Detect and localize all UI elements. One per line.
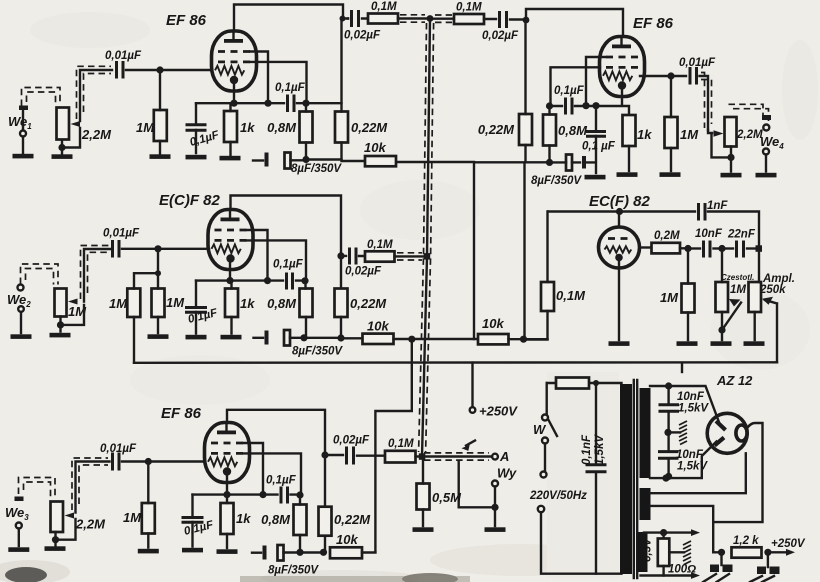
svg-text:22nF: 22nF (727, 229, 756, 241)
svg-text:0,02µF: 0,02µF (333, 435, 370, 447)
svg-text:0,22M: 0,22M (350, 296, 387, 311)
svg-text:1M: 1M (730, 284, 746, 296)
svg-text:10nF: 10nF (695, 228, 723, 240)
svg-text:0,22M: 0,22M (334, 512, 371, 527)
svg-text:0,22M: 0,22M (478, 122, 515, 137)
svg-text:10nF: 10nF (677, 391, 705, 403)
svg-text:Wy: Wy (497, 466, 517, 481)
svg-text:+250V: +250V (771, 538, 806, 550)
svg-text:W: W (533, 422, 547, 437)
svg-text:0,02µF: 0,02µF (345, 266, 382, 278)
svg-text:0,2M: 0,2M (654, 230, 680, 242)
svg-text:1k: 1k (637, 127, 652, 142)
svg-text:10nF: 10nF (676, 449, 704, 461)
svg-text:1k: 1k (240, 120, 255, 135)
svg-text:250k: 250k (759, 284, 786, 296)
svg-text:EC(F) 82: EC(F) 82 (589, 193, 651, 210)
svg-text:0,1M: 0,1M (388, 438, 414, 450)
svg-text:1k: 1k (236, 511, 251, 526)
svg-text:10k: 10k (336, 532, 358, 547)
svg-text:1,2 k: 1,2 k (733, 535, 759, 547)
svg-text:1M: 1M (660, 290, 679, 305)
svg-text:0,5M: 0,5M (432, 490, 462, 505)
svg-text:EF 86: EF 86 (166, 12, 207, 29)
svg-text:0,8M: 0,8M (261, 512, 291, 527)
svg-text:1M: 1M (166, 295, 185, 310)
svg-text:EF 86: EF 86 (161, 405, 202, 422)
svg-text:8µF/350V: 8µF/350V (291, 163, 342, 175)
svg-text:1k: 1k (240, 296, 255, 311)
svg-text:8µF/350V: 8µF/350V (268, 565, 319, 577)
svg-text:0,1µF: 0,1µF (273, 259, 304, 271)
svg-text:2,2M: 2,2M (81, 127, 112, 142)
svg-text:+250V: +250V (479, 404, 518, 419)
svg-text:1M: 1M (123, 510, 142, 525)
svg-text:8µF/350V: 8µF/350V (531, 175, 582, 187)
svg-text:1,5kV: 1,5kV (678, 403, 709, 415)
svg-text:EF 86: EF 86 (633, 15, 674, 32)
svg-text:Czestotl.: Czestotl. (721, 273, 754, 282)
svg-text:0,8M: 0,8M (267, 120, 297, 135)
svg-text:0,22M: 0,22M (351, 120, 388, 135)
svg-text:0,1M: 0,1M (371, 1, 397, 13)
svg-text:0,8M: 0,8M (558, 123, 588, 138)
svg-text:0,1nF: 0,1nF (581, 434, 593, 465)
svg-text:0,1 µF: 0,1 µF (582, 141, 616, 153)
svg-text:A: A (499, 449, 509, 464)
svg-text:1,5kV: 1,5kV (677, 461, 708, 473)
svg-text:0,01µF: 0,01µF (105, 50, 142, 62)
svg-text:220V/50Hz: 220V/50Hz (529, 490, 587, 502)
svg-text:E(C)F 82: E(C)F 82 (159, 192, 221, 209)
svg-text:0,1M: 0,1M (456, 2, 482, 14)
svg-text:1M: 1M (109, 296, 128, 311)
svg-text:2,2M: 2,2M (75, 517, 106, 532)
svg-text:0,1µF: 0,1µF (554, 85, 585, 97)
svg-text:10k: 10k (482, 316, 504, 331)
svg-text:0,02µF: 0,02µF (482, 30, 519, 42)
svg-text:1nF: 1nF (707, 200, 728, 212)
svg-text:10k: 10k (364, 140, 386, 155)
svg-text:0,1µF: 0,1µF (266, 475, 297, 487)
svg-text:1,5kV: 1,5kV (594, 434, 606, 465)
svg-text:1M: 1M (680, 127, 699, 142)
svg-text:1M: 1M (136, 120, 155, 135)
svg-text:0,1µF: 0,1µF (275, 82, 306, 94)
svg-text:10k: 10k (367, 319, 389, 334)
svg-text:0,1M: 0,1M (367, 239, 393, 251)
svg-text:6,3V: 6,3V (642, 537, 654, 562)
svg-text:0,01µF: 0,01µF (103, 228, 140, 240)
svg-text:0,02µF: 0,02µF (344, 30, 381, 42)
svg-text:0,8M: 0,8M (267, 296, 297, 311)
svg-text:8µF/350V: 8µF/350V (292, 346, 343, 358)
svg-text:AZ 12: AZ 12 (716, 373, 753, 388)
svg-text:0,1M: 0,1M (556, 288, 586, 303)
svg-text:2,2M: 2,2M (736, 129, 763, 141)
